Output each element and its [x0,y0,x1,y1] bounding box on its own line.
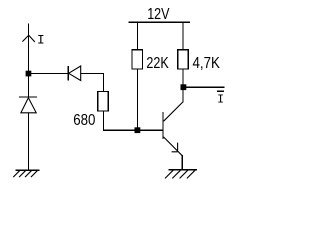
wire resistor 22K to node B [136,69,138,130]
node C junction dot [181,84,187,90]
svg-text:I: I [217,93,224,106]
wire node A to diode D2 [29,73,69,75]
wire node B to transistor base [137,129,163,131]
wire rail to resistor 22K [136,22,138,50]
wire diode D2 to corner [81,73,104,75]
transistor Q1 collector wire [182,87,184,102]
resistor R3 box [98,92,109,111]
resistor R2 box [178,50,189,69]
wire emitter down to ground [181,155,183,170]
ground right bar [169,169,198,171]
wire rail to resistor 4,7K [182,22,184,50]
wire corner down to resistor 680 [103,73,105,92]
transistor Q1 collector diagonal [164,102,184,122]
transistor Q1 base bar [162,112,164,139]
svg-text:680: 680 [73,112,95,129]
ground left bar [15,169,39,171]
label inverted I overline [217,90,224,92]
wire to node B [103,129,138,131]
node B junction dot [135,127,141,133]
ground left hatches [13,171,37,177]
wire resistor 4,7K to node C [182,69,184,87]
resistor R1 box [132,50,143,69]
transistor Q1 emitter arrow [172,143,178,152]
wire node C to output [183,86,225,88]
diode D1 cathode bar [19,96,37,98]
node A junction dot [26,71,32,77]
diode D2 cathode bar [67,66,69,81]
wire left vertical input [28,24,30,98]
svg-text:22K: 22K [146,55,169,72]
wire diode D1 to ground [27,113,29,170]
ground right hatches [165,170,195,178]
svg-text:12V: 12V [147,6,170,23]
wire resistor 680 down [103,111,105,131]
svg-text:I: I [37,32,45,47]
diode D2 triangle [69,66,81,81]
current arrow I (pointing up) [22,35,35,42]
transistor Q1 emitter diagonal [164,137,183,156]
svg-text:4,7K: 4,7K [193,55,221,72]
power rail 12V [129,21,190,23]
diode D1 triangle [21,98,36,113]
